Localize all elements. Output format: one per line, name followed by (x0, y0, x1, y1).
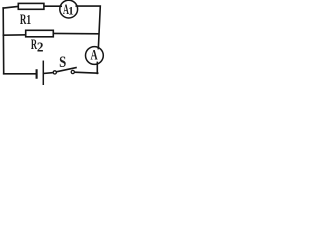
svg-text:A: A (91, 47, 98, 63)
svg-text:2: 2 (37, 39, 44, 54)
svg-text:S: S (59, 54, 66, 72)
svg-text:1: 1 (68, 5, 74, 17)
svg-text:1: 1 (26, 11, 31, 27)
